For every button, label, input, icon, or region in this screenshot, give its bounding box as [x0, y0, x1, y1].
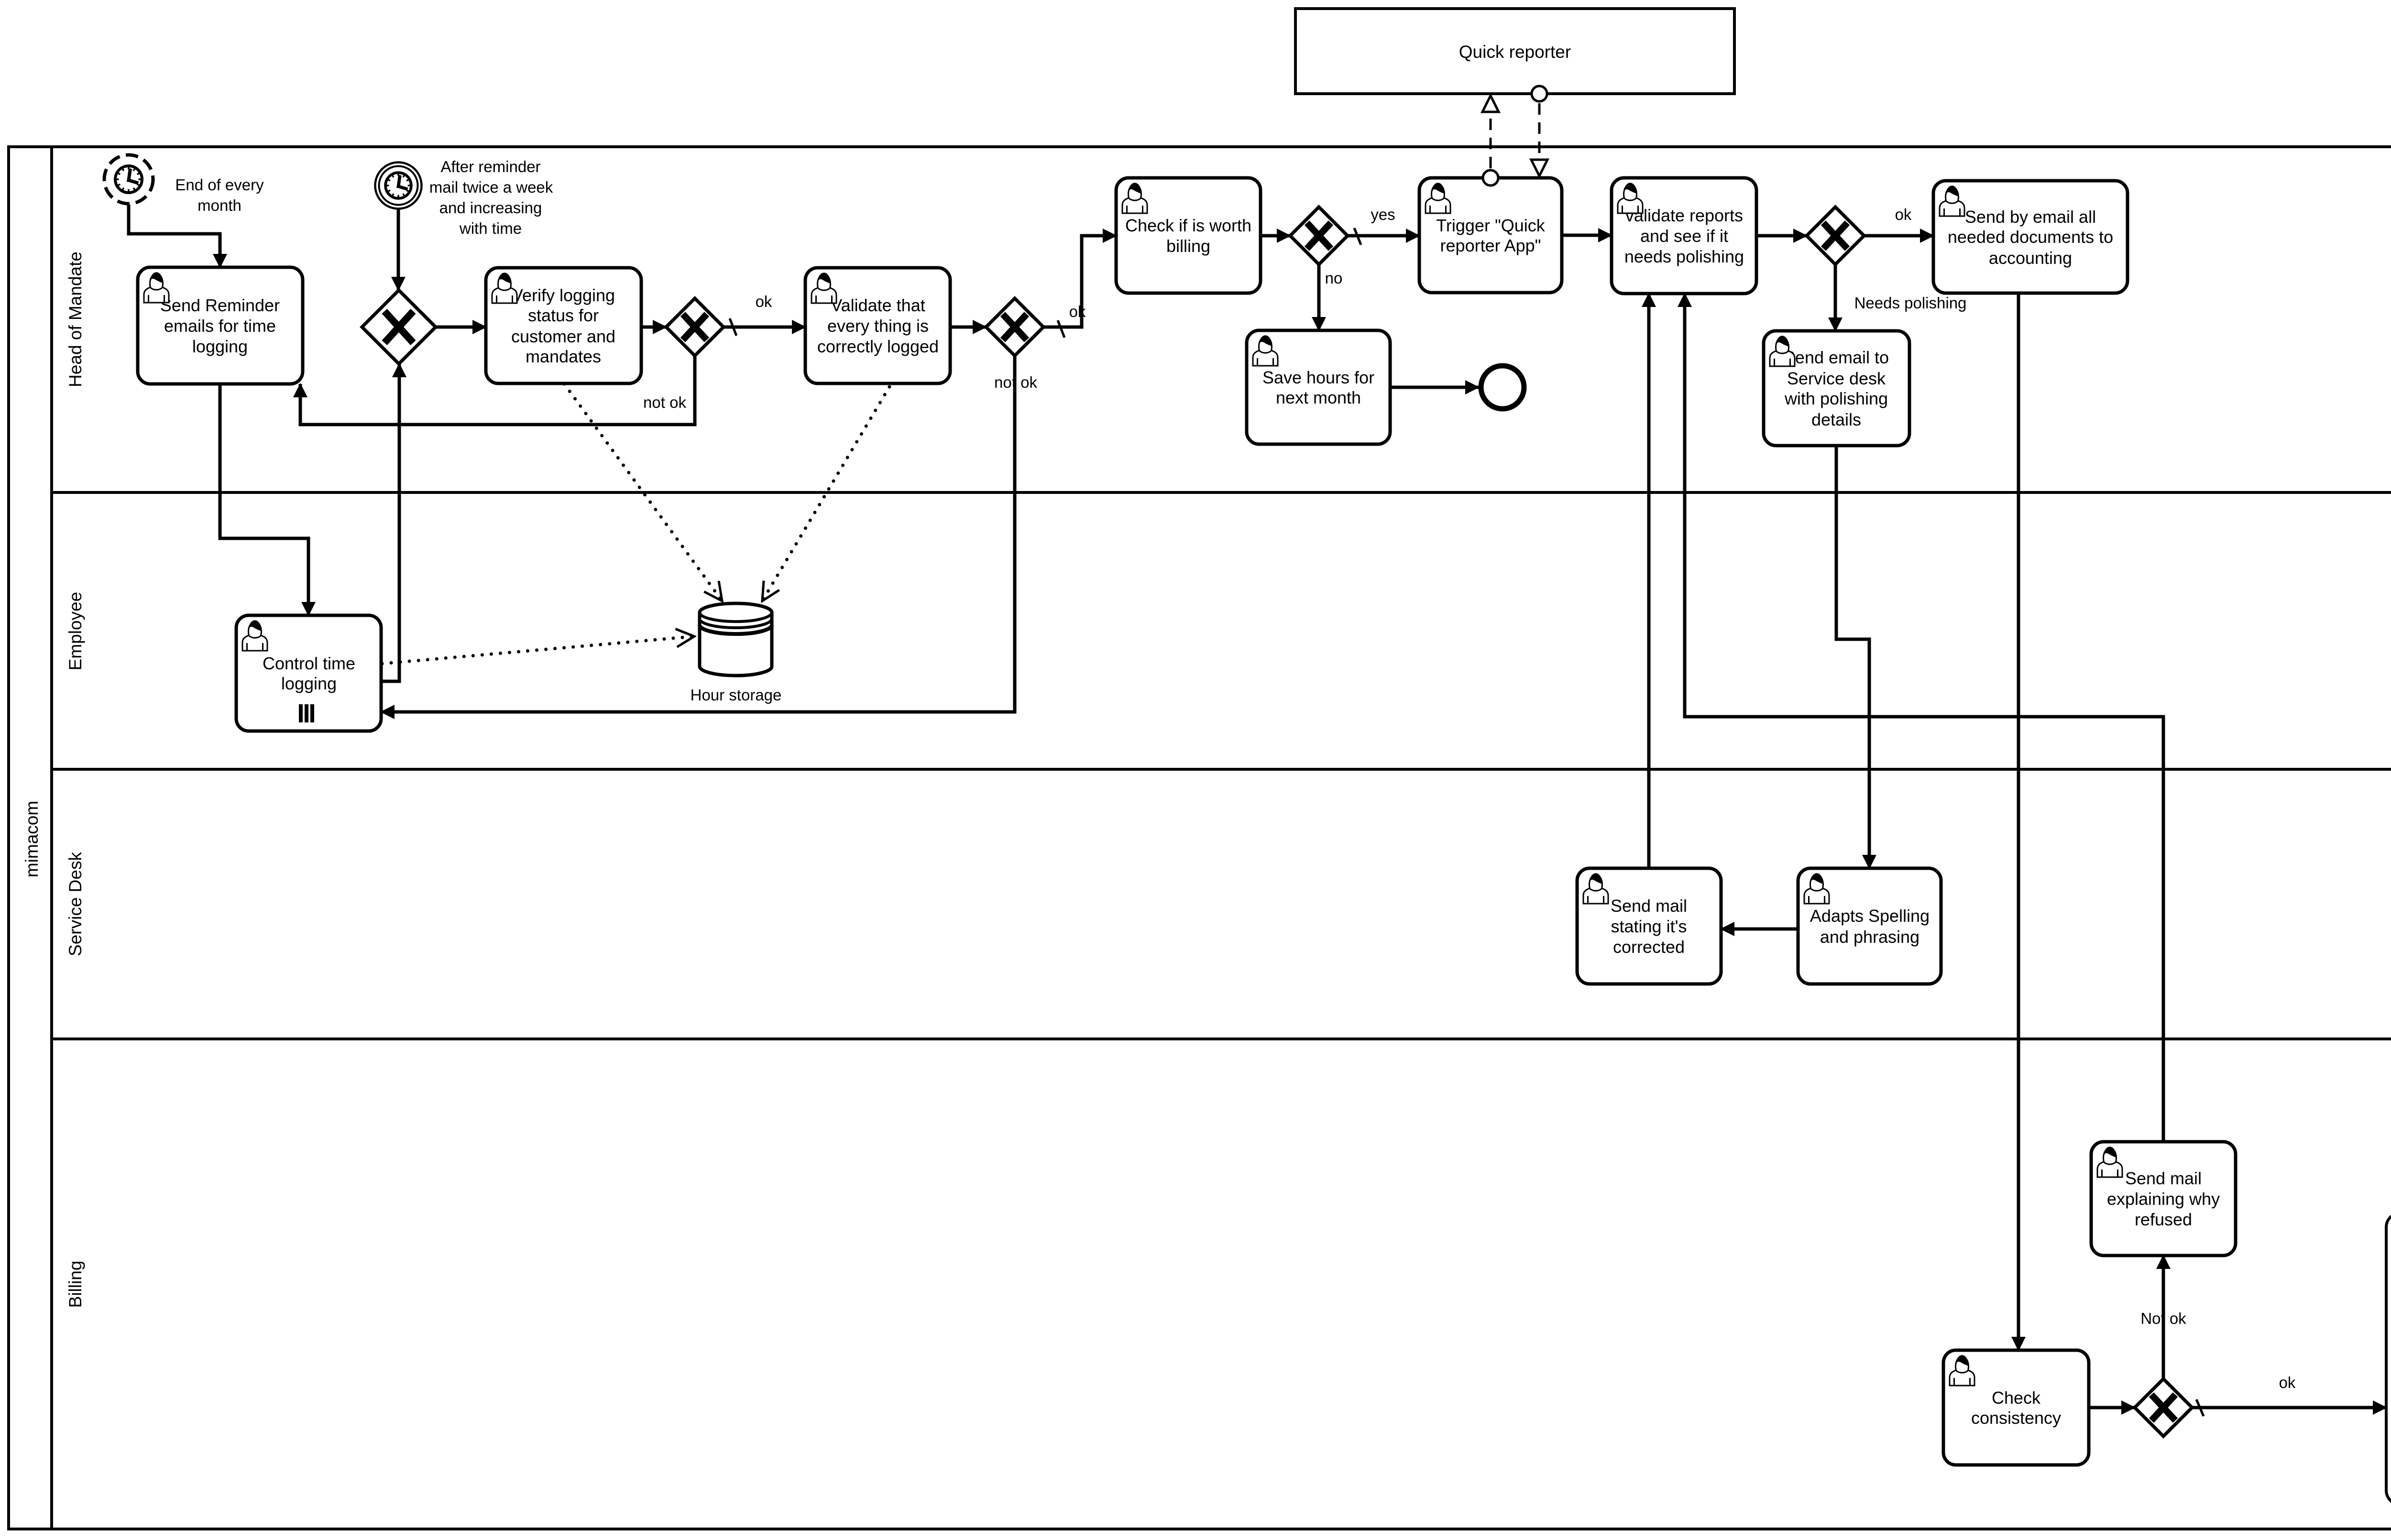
svg-text:After reminder: After reminder: [440, 158, 540, 175]
svg-text:Validate that: Validate that: [831, 295, 925, 315]
svg-text:every thing is: every thing is: [827, 316, 929, 336]
svg-text:Service Desk: Service Desk: [66, 852, 85, 956]
svg-text:correctly logged: correctly logged: [817, 337, 939, 356]
svg-text:Send mail: Send mail: [1611, 896, 1687, 916]
svg-text:ok: ok: [2279, 1374, 2296, 1391]
svg-text:consistency: consistency: [1971, 1408, 2061, 1428]
svg-text:details: details: [1811, 410, 1861, 429]
svg-text:mail twice a week: mail twice a week: [429, 178, 553, 196]
svg-text:Check if is worth: Check if is worth: [1125, 216, 1251, 235]
svg-text:Check: Check: [1992, 1388, 2041, 1408]
svg-text:reporter App": reporter App": [1440, 236, 1541, 255]
svg-text:ok: ok: [1895, 206, 1912, 223]
svg-text:needed documents to: needed documents to: [1948, 227, 2113, 247]
svg-text:refused: refused: [2135, 1210, 2192, 1229]
svg-text:ok: ok: [756, 293, 772, 310]
svg-text:logging: logging: [281, 674, 337, 693]
svg-text:Send Reminder: Send Reminder: [160, 295, 280, 315]
svg-text:mandates: mandates: [526, 347, 601, 366]
svg-text:explaining why: explaining why: [2107, 1189, 2220, 1209]
svg-text:Needs polishing: Needs polishing: [1854, 294, 1967, 312]
svg-text:Verify logging: Verify logging: [512, 285, 615, 305]
svg-text:status for: status for: [528, 306, 599, 325]
svg-text:logging: logging: [192, 337, 248, 356]
svg-text:billing: billing: [1166, 236, 1210, 256]
svg-text:Service desk: Service desk: [1787, 369, 1886, 388]
svg-text:accounting: accounting: [1989, 248, 2072, 268]
svg-text:and phrasing: and phrasing: [1820, 927, 1919, 947]
svg-text:Head of Mandate: Head of Mandate: [66, 251, 85, 387]
svg-text:Send email to: Send email to: [1784, 348, 1889, 367]
svg-text:ok: ok: [1069, 303, 1086, 320]
svg-text:yes: yes: [1371, 206, 1395, 223]
svg-text:needs polishing: needs polishing: [1624, 247, 1744, 266]
svg-text:month: month: [197, 197, 241, 214]
svg-text:with polishing: with polishing: [1784, 389, 1888, 408]
svg-text:Send mail: Send mail: [2125, 1169, 2202, 1188]
svg-text:and increasing: and increasing: [439, 199, 542, 217]
svg-text:Hour storage: Hour storage: [691, 686, 782, 704]
svg-text:Control time: Control time: [263, 654, 355, 673]
svg-text:not ok: not ok: [994, 373, 1037, 391]
svg-text:with time: with time: [459, 219, 522, 237]
svg-text:Save hours for: Save hours for: [1262, 368, 1374, 387]
svg-text:mimacom: mimacom: [22, 801, 42, 877]
svg-text:not ok: not ok: [643, 393, 686, 411]
svg-text:and see if it: and see if it: [1640, 226, 1728, 246]
svg-text:stating it's: stating it's: [1611, 917, 1687, 936]
svg-text:Adapts Spelling: Adapts Spelling: [1810, 906, 1930, 926]
svg-text:Not ok: Not ok: [2140, 1310, 2186, 1327]
svg-text:Billing: Billing: [66, 1261, 85, 1308]
svg-text:no: no: [1325, 269, 1343, 287]
svg-text:next month: next month: [1276, 388, 1361, 407]
svg-text:corrected: corrected: [1613, 937, 1685, 957]
svg-text:Trigger "Quick: Trigger "Quick: [1436, 216, 1545, 235]
svg-text:emails for time: emails for time: [164, 316, 276, 336]
svg-text:End of every: End of every: [175, 176, 264, 194]
svg-text:Employee: Employee: [66, 592, 85, 671]
svg-text:Send by email all: Send by email all: [1965, 207, 2096, 227]
svg-text:customer and: customer and: [511, 327, 615, 346]
svg-text:Quick reporter: Quick reporter: [1459, 42, 1571, 62]
